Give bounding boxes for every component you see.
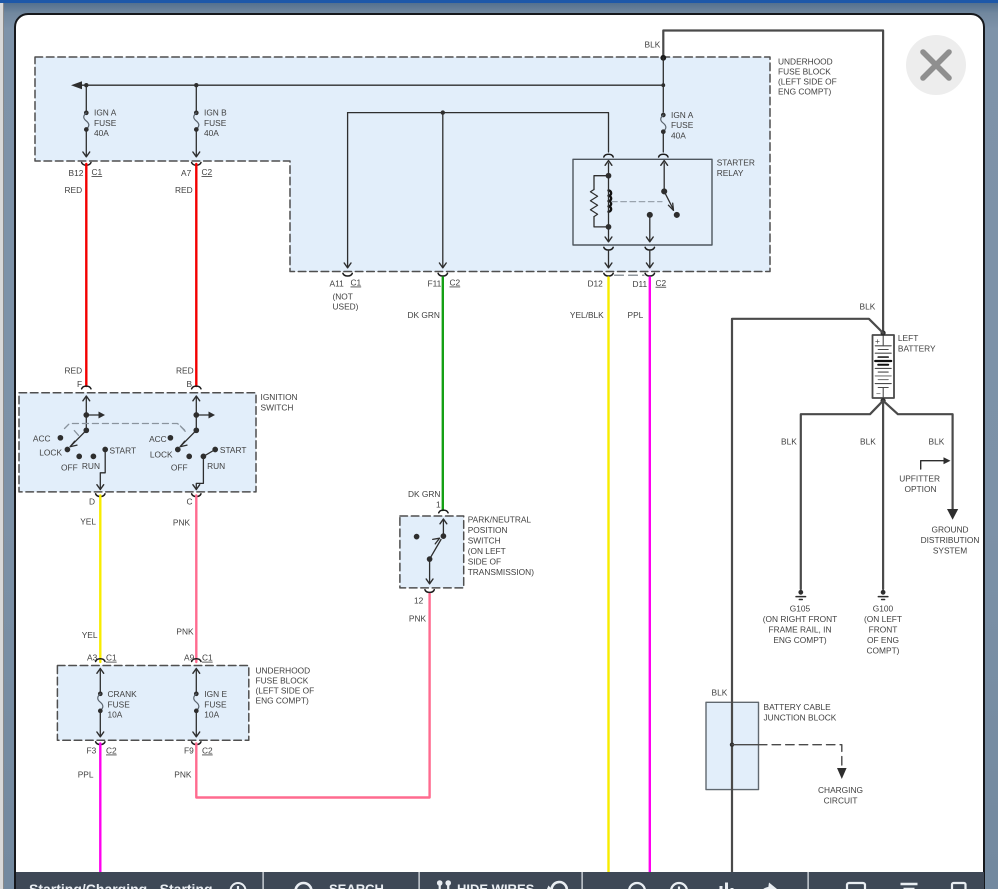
svg-text:(LEFT SIDE OF: (LEFT SIDE OF xyxy=(778,77,837,87)
svg-text:OF ENG: OF ENG xyxy=(867,635,899,645)
svg-text:DK GRN: DK GRN xyxy=(408,489,440,499)
relay actuation link (dashed) xyxy=(612,201,662,203)
svg-text:C1: C1 xyxy=(351,278,362,288)
svg-text:CHARGING: CHARGING xyxy=(818,785,863,795)
underhood fuse block (top) body xyxy=(35,57,770,272)
svg-text:OFF: OFF xyxy=(171,463,188,473)
battery cable junction block label xyxy=(764,702,837,723)
fuse IGN E 10A xyxy=(193,669,200,737)
underhood fuse block (lower) label xyxy=(256,666,315,706)
bus left arrowhead xyxy=(71,81,82,89)
svg-text:RELAY: RELAY xyxy=(717,168,744,178)
svg-text:(NOT: (NOT xyxy=(333,292,353,302)
svg-text:PNK: PNK xyxy=(176,627,194,637)
svg-text:C: C xyxy=(187,497,193,507)
svg-text:OPTION: OPTION xyxy=(905,484,937,494)
svg-text:ACC: ACC xyxy=(33,434,51,444)
svg-text:PARK/NEUTRAL: PARK/NEUTRAL xyxy=(468,515,532,525)
connector pin 1 (cup) xyxy=(439,510,448,513)
svg-text:C1: C1 xyxy=(106,653,117,663)
svg-text:(ON LEFT: (ON LEFT xyxy=(468,546,506,556)
node: F11 tap on coil rail xyxy=(441,110,445,114)
svg-text:UNDERHOOD: UNDERHOOD xyxy=(778,57,833,67)
svg-text:OFF: OFF xyxy=(61,463,78,473)
wire BLK (battery + up over to fuse block top) xyxy=(663,31,883,334)
ignition switch label xyxy=(261,392,298,413)
svg-text:FRONT: FRONT xyxy=(869,625,898,635)
node: junction block tap xyxy=(730,743,734,747)
svg-text:PNK: PNK xyxy=(173,518,191,528)
svg-text:RED: RED xyxy=(175,185,193,195)
svg-text:C2: C2 xyxy=(450,278,461,288)
svg-text:1: 1 xyxy=(436,500,441,510)
svg-text:POSITION: POSITION xyxy=(468,525,508,535)
ignition switch half 2 internals xyxy=(168,396,217,490)
svg-text:ENG COMPT): ENG COMPT) xyxy=(256,696,310,706)
svg-text:RED: RED xyxy=(65,366,83,376)
node: battery + junction xyxy=(881,330,886,335)
svg-text:10A: 10A xyxy=(108,710,123,720)
starter relay coil branch xyxy=(590,161,612,242)
svg-text:FRAME RAIL, IN: FRAME RAIL, IN xyxy=(768,625,831,635)
fuse IGN A 40A (relay feed) xyxy=(661,113,666,152)
svg-text:YEL/BLK: YEL/BLK xyxy=(570,310,604,320)
svg-text:G100: G100 xyxy=(873,604,894,614)
connector C2 link (dashed) xyxy=(615,274,645,276)
wire BLK (through junction block to bottom) xyxy=(731,702,733,872)
node: bus tap IGN A fuse xyxy=(84,83,88,87)
svg-text:IGN E: IGN E xyxy=(204,689,227,699)
svg-text:40A: 40A xyxy=(204,128,219,138)
node: bus junction at IGN A relay fuse xyxy=(661,83,665,87)
fuse CRANK 10A xyxy=(97,669,104,737)
linkage tick (left) xyxy=(74,431,78,436)
wire PPL (D11 down) xyxy=(649,278,651,873)
svg-text:LOCK: LOCK xyxy=(150,450,173,460)
svg-text:UNDERHOOD: UNDERHOOD xyxy=(256,666,311,676)
svg-text:D12: D12 xyxy=(588,279,604,289)
svg-text:F: F xyxy=(77,379,82,389)
linkage tick (right) xyxy=(180,426,185,431)
fuse IGN A 40A (left) xyxy=(83,85,90,157)
svg-text:+: + xyxy=(875,336,880,346)
connector A9 C1 (cup) xyxy=(192,659,201,662)
svg-text:PPL: PPL xyxy=(628,310,644,320)
svg-text:C2: C2 xyxy=(656,278,667,288)
wire PNK (ignition C to IGN E fuse) xyxy=(195,496,197,663)
svg-text:LOCK: LOCK xyxy=(39,448,62,458)
svg-text:START: START xyxy=(110,446,137,456)
connector pin 12 (cup) xyxy=(425,590,434,593)
connector: relay coil out (cup) xyxy=(604,247,613,250)
svg-text:STARTER: STARTER xyxy=(717,158,755,168)
svg-text:BLK: BLK xyxy=(645,40,661,50)
battery cable junction block body xyxy=(706,702,759,789)
svg-text:ACC: ACC xyxy=(149,434,167,444)
svg-text:BLK: BLK xyxy=(929,437,945,447)
ignition switch half 1 internals xyxy=(58,396,107,490)
wire: relay coil out to D12 xyxy=(608,251,610,268)
connector F11 C2 (cup) xyxy=(438,273,447,276)
svg-text:RUN: RUN xyxy=(82,461,100,471)
fuse IGN B 40A xyxy=(193,85,200,157)
svg-text:SYSTEM: SYSTEM xyxy=(933,546,967,556)
wire: A11 branch xyxy=(347,113,349,268)
svg-text:ENG COMPT): ENG COMPT) xyxy=(778,87,832,97)
svg-text:(ON RIGHT FRONT: (ON RIGHT FRONT xyxy=(763,614,837,624)
connector A7 C2 (cup) xyxy=(192,163,201,166)
svg-text:SWITCH: SWITCH xyxy=(261,403,294,413)
connector F (cup) xyxy=(82,386,91,389)
svg-text:HIDE WIRES: HIDE WIRES xyxy=(457,882,535,889)
svg-text:COMPT): COMPT) xyxy=(867,646,900,656)
svg-text:BLK: BLK xyxy=(781,437,797,447)
wire YEL (ignition D to crank fuse) xyxy=(99,496,101,663)
wire: relay coil feed rail inside fuse block xyxy=(348,113,609,152)
connector: relay coil pin (cup) xyxy=(604,154,613,157)
upfitter option tap xyxy=(921,461,944,469)
svg-text:YEL: YEL xyxy=(80,517,96,527)
wire YEL/BLK (D12 down) xyxy=(607,278,609,873)
connector: relay switch pin (cup) xyxy=(659,154,668,157)
connector B (cup) xyxy=(192,386,201,389)
svg-text:RED: RED xyxy=(176,366,194,376)
underhood fuse block (top) label xyxy=(778,57,837,97)
wire PNK (F9 down, right, up to park/neutral switch) xyxy=(196,594,429,798)
park/neutral position switch label xyxy=(468,515,535,578)
ignition switch body xyxy=(19,393,256,492)
svg-text:C1: C1 xyxy=(92,167,103,177)
svg-text:GROUND: GROUND xyxy=(931,525,968,535)
svg-text:A9: A9 xyxy=(184,653,195,663)
connector B12 C1 (cup) xyxy=(82,163,91,166)
svg-text:D11: D11 xyxy=(633,279,648,289)
svg-text:Starting/Charging - Starting .: Starting/Charging - Starting ... xyxy=(29,881,228,889)
svg-text:C2: C2 xyxy=(202,167,213,177)
svg-text:YEL: YEL xyxy=(82,630,98,640)
svg-text:IGN A: IGN A xyxy=(94,108,117,118)
connector A3 C1 (cup) xyxy=(96,659,105,662)
svg-text:A11: A11 xyxy=(330,279,345,289)
svg-text:−: − xyxy=(876,389,881,399)
svg-text:F3: F3 xyxy=(87,746,97,756)
connector A11 C1 (cup) xyxy=(343,273,352,276)
svg-text:B12: B12 xyxy=(69,168,84,178)
wire DK GRN (F11 to park/neutral switch pin 1) xyxy=(442,278,444,511)
wire: relay switch out to D11 xyxy=(649,251,651,268)
ignition switch mechanical linkage (dashed) xyxy=(65,424,185,431)
svg-text:BATTERY CABLE: BATTERY CABLE xyxy=(764,702,832,712)
svg-text:USED): USED) xyxy=(333,302,359,312)
svg-text:G105: G105 xyxy=(790,604,811,614)
svg-text:FUSE: FUSE xyxy=(204,118,227,128)
svg-text:F11: F11 xyxy=(428,279,442,289)
park/neutral position switch body xyxy=(400,516,464,588)
wire RED (A7 to ignition switch B) xyxy=(195,164,197,386)
wire BLK (battery + to junction block cable) xyxy=(732,319,883,703)
svg-text:CRANK: CRANK xyxy=(108,689,138,699)
svg-text:D: D xyxy=(89,497,95,507)
svg-text:C2: C2 xyxy=(106,746,117,756)
svg-text:DK GRN: DK GRN xyxy=(408,310,440,320)
park/neutral switch internals xyxy=(414,519,446,584)
svg-text:BLK: BLK xyxy=(712,688,728,698)
ground G105 xyxy=(796,590,806,600)
starter relay body xyxy=(573,159,712,245)
connector D11 C2 (cup) xyxy=(645,273,654,276)
svg-text:C1: C1 xyxy=(202,653,213,663)
connector D12 (cup) xyxy=(604,273,613,276)
wire BLK (battery - splitter) xyxy=(801,401,883,589)
connector D (cup) xyxy=(96,494,105,497)
svg-text:FUSE BLOCK: FUSE BLOCK xyxy=(256,676,309,686)
underhood fuse block (lower) body xyxy=(57,666,248,741)
svg-text:PPL: PPL xyxy=(78,770,94,780)
svg-text:FUSE: FUSE xyxy=(108,699,131,709)
svg-text:JUNCTION BLOCK: JUNCTION BLOCK xyxy=(764,713,837,723)
wire: feed bus inside fuse block xyxy=(75,84,663,86)
svg-text:40A: 40A xyxy=(671,130,686,140)
svg-text:IGN A: IGN A xyxy=(671,110,694,120)
connector C (cup) xyxy=(192,494,201,497)
svg-text:A7: A7 xyxy=(181,168,192,178)
wire: charging circuit branch xyxy=(732,744,759,746)
starter relay label xyxy=(717,158,755,179)
svg-text:IGNITION: IGNITION xyxy=(261,392,298,402)
wire: charging circuit branch (dashed) xyxy=(759,745,842,768)
svg-text:A3: A3 xyxy=(87,653,98,663)
svg-text:CIRCUIT: CIRCUIT xyxy=(824,796,858,806)
wire PPL (crank fuse F3 down to bottom) xyxy=(99,744,101,873)
svg-text:UPFITTER: UPFITTER xyxy=(899,474,940,484)
svg-text:RUN: RUN xyxy=(207,461,225,471)
node: bus tap IGN B fuse xyxy=(194,83,198,87)
ground distribution arrow xyxy=(947,509,958,520)
svg-text:10A: 10A xyxy=(204,710,219,720)
wire: junction down through bus to IGN A relay fuse xyxy=(662,58,664,112)
svg-text:ENG COMPT): ENG COMPT) xyxy=(773,635,827,645)
svg-text:PNK: PNK xyxy=(174,770,192,780)
svg-text:FUSE: FUSE xyxy=(94,118,117,128)
svg-text:FUSE: FUSE xyxy=(204,699,227,709)
connector: relay switch out (cup) xyxy=(645,247,654,250)
svg-text:LEFT: LEFT xyxy=(898,333,918,343)
ground G100 xyxy=(878,590,888,600)
svg-text:BLK: BLK xyxy=(860,437,876,447)
svg-text:DISTRIBUTION: DISTRIBUTION xyxy=(921,535,980,545)
svg-text:40A: 40A xyxy=(94,128,109,138)
svg-text:BATTERY: BATTERY xyxy=(898,344,936,354)
node: BLK junction at fuse block top xyxy=(660,55,666,61)
svg-text:FUSE: FUSE xyxy=(671,120,694,130)
battery label xyxy=(898,333,936,354)
svg-text:TRANSMISSION): TRANSMISSION) xyxy=(468,567,535,577)
starter relay switch branch xyxy=(646,161,679,242)
svg-text:START: START xyxy=(220,445,247,455)
wire: F11 branch xyxy=(442,113,444,268)
svg-text:PNK: PNK xyxy=(409,614,427,624)
svg-text:(LEFT SIDE OF: (LEFT SIDE OF xyxy=(256,686,315,696)
svg-text:FUSE BLOCK: FUSE BLOCK xyxy=(778,67,831,77)
connector F9 C2 (cup) xyxy=(192,742,201,745)
wire RED (B12 to ignition switch F) xyxy=(85,164,87,386)
battery LEFT BATTERY xyxy=(873,335,895,399)
svg-text:SWITCH: SWITCH xyxy=(468,536,501,546)
svg-text:IGN B: IGN B xyxy=(204,108,227,118)
close button xyxy=(906,35,966,95)
svg-text:SEARCH: SEARCH xyxy=(329,882,384,889)
svg-text:F9: F9 xyxy=(184,746,194,756)
node: battery - junction xyxy=(881,398,886,403)
svg-text:RED: RED xyxy=(65,185,83,195)
connector F3 C2 (cup) xyxy=(96,742,105,745)
svg-text:C2: C2 xyxy=(202,746,213,756)
svg-text:12: 12 xyxy=(414,596,424,606)
svg-text:SIDE OF: SIDE OF xyxy=(468,557,501,567)
svg-text:BLK: BLK xyxy=(860,302,876,312)
svg-text:(ON LEFT: (ON LEFT xyxy=(864,614,902,624)
